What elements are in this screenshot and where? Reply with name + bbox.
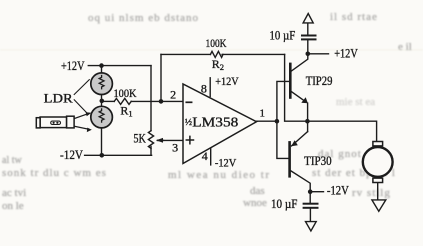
LDR lower photoresistor [91,106,113,128]
svg-text:das: das [250,185,265,197]
wire op-amp output pin 1 [257,120,277,122]
wire LDR chain middle segment [101,94,103,106]
potentiometer 5K wiper arrow [158,139,164,141]
op-amp non-inverting input plus sign [186,136,193,143]
wire bottom cap to ground arrow [309,209,311,222]
svg-text:4: 4 [202,149,208,163]
svg-text:5K: 5K [133,130,146,145]
svg-text:-12V: -12V [327,184,349,198]
svg-text:100K: 100K [206,36,227,50]
transistor Q1 TIP29 base bar [289,64,292,98]
svg-text:mie st ea: mie st ea [336,96,375,108]
svg-text:oq ui nlsm eb dstano: oq ui nlsm eb dstano [88,12,199,24]
svg-text:2: 2 [170,88,176,102]
svg-text:LM358: LM358 [192,116,238,131]
wire +12V junction to label [308,53,329,55]
svg-text:100K: 100K [114,86,137,100]
flashlight switch [51,121,61,124]
ground arrow below motor (points down) [372,200,386,211]
transistor Q2 TIP30 emitter with arrow into base [292,132,308,146]
svg-text:il sd rtae: il sd rtae [330,11,378,23]
node junction +12V/C1/TIP29 collector [306,52,311,57]
node junction TIP30 collector/C2/-12V [308,189,313,194]
wire top arrow to cap top [307,23,309,35]
capacitor C2 10uF bottom plates [304,203,318,205]
wire LDR chain top lead [101,66,103,74]
svg-text:10 µF: 10 µF [270,29,296,43]
wire op-amp pin 8 to +12V [209,78,211,97]
ground arrow bottom right (points down) [306,222,317,231]
flashlight tail cap [36,118,40,128]
ground arrow top (points up) [303,14,313,23]
svg-text:wnoe: wnoe [243,197,267,209]
svg-text:½: ½ [185,117,192,128]
node junction +12V/LDR top [99,63,104,68]
motor M1 bottom terminal [373,178,383,182]
svg-text:+12V: +12V [61,58,85,73]
svg-text:+12V: +12V [334,46,358,61]
svg-text:-12V: -12V [60,147,84,162]
svg-text:ac tvi: ac tvi [2,187,26,199]
svg-text:on le: on le [2,200,24,212]
node junction LDR midpoint [100,99,105,104]
wire emitter node to motor [307,121,376,142]
resistor R2 100K zigzag [210,51,223,57]
svg-text:ml wea nu dieo tr: ml wea nu dieo tr [168,169,270,181]
wire feedback top left segment to R2 [161,53,210,55]
wire node to TIP30 emitter [307,121,309,131]
wire -12V junction to label [310,191,323,193]
op-amp U1 LM358 triangle [183,84,257,164]
node junction output/base rail [275,119,280,124]
wire op-amp pin 4 to -12V [210,148,212,165]
wire 5K wiper to op-amp pin 3 [158,139,184,141]
LDR label leader lower [74,100,88,114]
svg-text:R2: R2 [212,57,224,72]
wire R1 to op-amp pin 2 [131,100,183,102]
LDR label leader upper [74,80,89,95]
wire -12V junction to cap top [309,192,311,203]
svg-text:TIP30: TIP30 [304,154,332,168]
wire base rail TIP29/TIP30 [277,81,290,158]
wire TIP29 emitter to node [307,103,309,121]
svg-text:LDR: LDR [44,90,73,105]
wire +12V corner down to 5K pot top [150,66,152,131]
flashlight light ray upper with arrowhead [75,114,88,118]
svg-text:TIP29: TIP29 [306,74,333,88]
LDR upper photoresistor [91,73,113,95]
wire LDR chain bottom lead [101,128,103,155]
flashlight head [67,116,75,128]
svg-text:-12V: -12V [215,155,237,169]
svg-text:1: 1 [260,107,266,119]
node junction emitter rail/feedback/motor [305,119,310,124]
wire TIP30 collector [291,171,310,192]
svg-text:al tw: al tw [2,155,22,166]
wire LDR junction to R1 [102,100,115,102]
potentiometer 5K zigzag [148,131,153,149]
flashlight light ray lower with arrowhead [75,126,88,129]
svg-text:rv stilg: rv stilg [352,187,391,199]
resistor R1 100K zigzag [114,98,131,104]
transistor Q1 TIP29 emitter with arrow [290,91,305,102]
wire TIP29 collector [290,54,308,72]
wire 5K pot bottom to -12V rail [150,146,152,155]
svg-text:8: 8 [201,81,207,95]
wire feedback down right side [285,54,308,121]
motor M1 top terminal [373,142,383,146]
motor M1 body [363,147,393,177]
wire feedback vertical from pin2 node up [160,54,162,101]
svg-text:R1: R1 [120,104,132,119]
wire -12V rail bottom-left [85,154,152,156]
svg-text:3: 3 [172,141,178,155]
wire motor bottom to ground arrow [377,182,379,200]
svg-text:e il: e il [398,41,412,53]
capacitor C1 10uF top plates [302,35,316,37]
svg-text:sonk tr dlu c wm es: sonk tr dlu c wm es [2,167,107,179]
transistor Q2 TIP30 base bar [288,142,291,176]
node junction LDR bottom/-12V [100,153,105,158]
flashlight body [40,117,67,128]
svg-text:+12V: +12V [215,74,239,88]
wire +12V supply top-left horizontal [88,65,151,67]
svg-text:10 µF: 10 µF [271,197,297,211]
wire R2 to corner right [222,53,285,55]
op-amp inverting input minus sign [186,101,191,103]
node junction feedback/pin2 [159,99,164,104]
wire +12V junction to cap bottom [307,40,309,54]
